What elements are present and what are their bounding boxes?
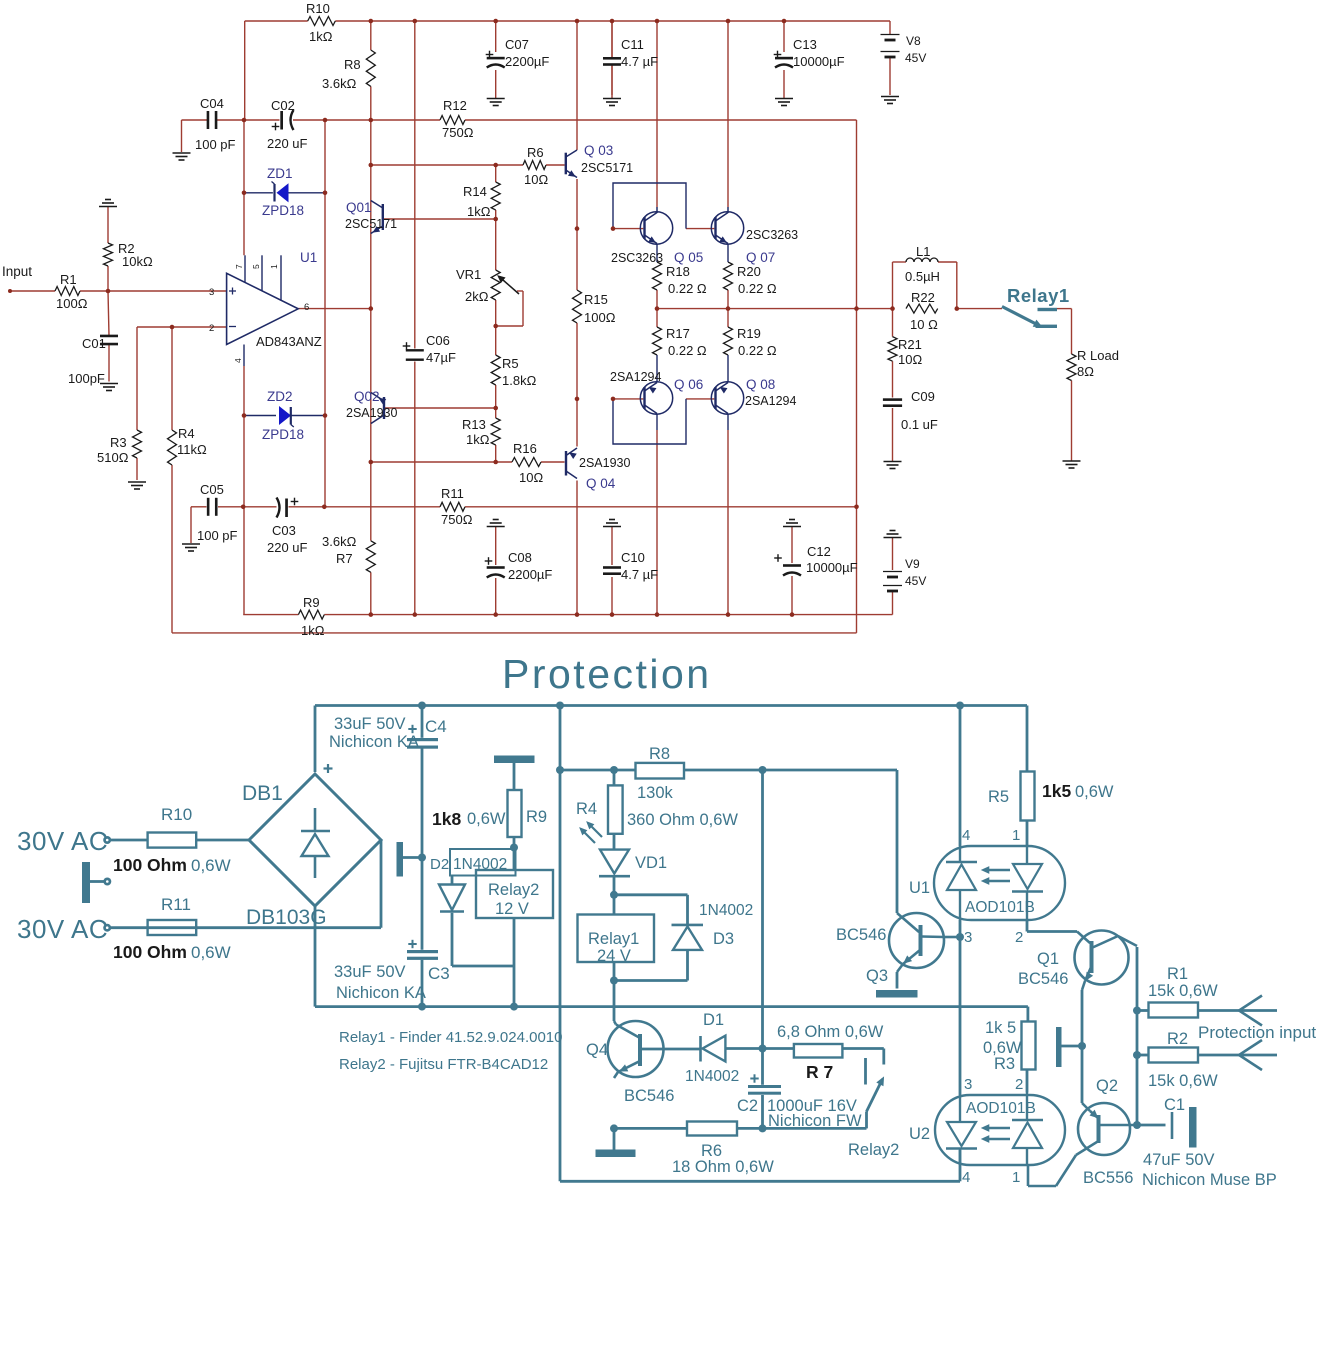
svg-text:10kΩ: 10kΩ xyxy=(122,254,153,269)
svg-text:47uF 50V: 47uF 50V xyxy=(1143,1151,1215,1169)
svg-text:4.7 µF: 4.7 µF xyxy=(621,54,658,69)
svg-text:C11: C11 xyxy=(621,37,644,52)
svg-text:R4: R4 xyxy=(178,426,195,441)
svg-text:2SC5171: 2SC5171 xyxy=(581,161,633,175)
svg-text:0.22 Ω: 0.22 Ω xyxy=(738,343,777,358)
svg-text:3: 3 xyxy=(209,287,214,298)
svg-text:Q 04: Q 04 xyxy=(586,476,616,491)
svg-text:3: 3 xyxy=(964,929,972,946)
svg-text:ZD2: ZD2 xyxy=(267,389,293,404)
svg-text:R15: R15 xyxy=(584,292,608,307)
svg-text:Relay2: Relay2 xyxy=(848,1141,899,1159)
svg-text:C13: C13 xyxy=(793,37,817,52)
svg-text:Q4: Q4 xyxy=(586,1041,608,1059)
svg-text:D3: D3 xyxy=(713,930,734,948)
svg-text:7: 7 xyxy=(234,264,244,269)
svg-text:D1: D1 xyxy=(703,1011,724,1029)
svg-text:Nichicon Muse BP: Nichicon Muse BP xyxy=(1142,1171,1277,1189)
svg-text:R5: R5 xyxy=(988,788,1009,806)
svg-text:ZD1: ZD1 xyxy=(267,166,293,181)
svg-text:0.1 uF: 0.1 uF xyxy=(901,417,938,432)
svg-text:C4: C4 xyxy=(425,717,447,736)
svg-text:0,6W: 0,6W xyxy=(191,856,231,875)
svg-text:R22: R22 xyxy=(911,290,935,305)
svg-text:100 pF: 100 pF xyxy=(195,137,236,152)
svg-text:R17: R17 xyxy=(666,326,690,341)
svg-text:C02: C02 xyxy=(271,98,295,113)
svg-text:Protection: Protection xyxy=(502,651,712,697)
svg-text:C09: C09 xyxy=(911,389,935,404)
svg-text:R3: R3 xyxy=(994,1055,1015,1073)
svg-text:6,8 Ohm 0,6W: 6,8 Ohm 0,6W xyxy=(777,1023,884,1041)
svg-text:R Load: R Load xyxy=(1077,348,1119,363)
svg-text:130k: 130k xyxy=(637,784,674,802)
svg-text:2SC5171: 2SC5171 xyxy=(345,217,397,231)
svg-text:AD843ANZ: AD843ANZ xyxy=(256,334,322,349)
svg-text:750Ω: 750Ω xyxy=(442,125,474,140)
svg-text:1N4002: 1N4002 xyxy=(699,902,753,919)
svg-text:R4: R4 xyxy=(576,800,597,818)
svg-text:1: 1 xyxy=(1012,827,1020,844)
svg-text:R2: R2 xyxy=(1167,1030,1188,1048)
svg-text:Q02: Q02 xyxy=(354,389,380,404)
svg-text:DB1: DB1 xyxy=(242,782,283,805)
svg-text:R19: R19 xyxy=(737,326,761,341)
svg-text:100Ω: 100Ω xyxy=(56,296,88,311)
svg-text:Input: Input xyxy=(2,264,32,279)
svg-text:0.22 Ω: 0.22 Ω xyxy=(738,281,777,296)
svg-text:R1: R1 xyxy=(1167,965,1188,983)
svg-text:18 Ohm 0,6W: 18 Ohm 0,6W xyxy=(672,1158,774,1176)
svg-text:U1: U1 xyxy=(300,250,317,265)
svg-text:1N4002: 1N4002 xyxy=(453,856,507,873)
svg-text:10Ω: 10Ω xyxy=(524,172,548,187)
svg-text:R1: R1 xyxy=(60,272,77,287)
svg-text:15k 0,6W: 15k 0,6W xyxy=(1148,982,1218,1000)
svg-text:Q1: Q1 xyxy=(1037,950,1059,968)
svg-text:Q 03: Q 03 xyxy=(584,143,613,158)
svg-text:R11: R11 xyxy=(441,486,464,501)
svg-text:R10: R10 xyxy=(306,1,330,16)
svg-text:8Ω: 8Ω xyxy=(1077,364,1094,379)
svg-text:C10: C10 xyxy=(621,550,645,565)
svg-text:1kΩ: 1kΩ xyxy=(466,432,490,447)
svg-text:47µF: 47µF xyxy=(426,350,456,365)
svg-text:R14: R14 xyxy=(463,184,487,199)
svg-text:C05: C05 xyxy=(200,482,224,497)
svg-text:1.8kΩ: 1.8kΩ xyxy=(502,373,537,388)
svg-text:220 uF: 220 uF xyxy=(267,136,308,151)
svg-text:Relay1: Relay1 xyxy=(1007,285,1070,306)
svg-text:Relay1 - Finder 41.52.9.024.00: Relay1 - Finder 41.52.9.024.0010 xyxy=(339,1029,562,1046)
svg-text:ZPD18: ZPD18 xyxy=(262,203,304,218)
svg-text:2200µF: 2200µF xyxy=(508,567,552,582)
svg-text:6: 6 xyxy=(304,302,309,313)
svg-text:3: 3 xyxy=(964,1076,972,1093)
svg-text:VD1: VD1 xyxy=(635,854,667,872)
svg-text:DB103G: DB103G xyxy=(246,906,327,929)
svg-text:Nichicon FW: Nichicon FW xyxy=(768,1112,862,1130)
svg-text:15k 0,6W: 15k 0,6W xyxy=(1148,1072,1218,1090)
svg-text:Relay1: Relay1 xyxy=(588,930,639,948)
svg-text:R18: R18 xyxy=(666,264,690,279)
svg-text:Q2: Q2 xyxy=(1096,1077,1118,1095)
svg-text:10Ω: 10Ω xyxy=(519,470,543,485)
svg-text:100 Ohm: 100 Ohm xyxy=(113,855,187,875)
svg-text:R16: R16 xyxy=(513,441,537,456)
svg-text:R20: R20 xyxy=(737,264,761,279)
svg-text:BC546: BC546 xyxy=(836,926,886,944)
svg-text:11kΩ: 11kΩ xyxy=(177,442,207,457)
svg-text:C1: C1 xyxy=(1164,1096,1185,1114)
svg-text:C07: C07 xyxy=(505,37,529,52)
svg-text:0,6W: 0,6W xyxy=(467,810,506,828)
svg-text:BC546: BC546 xyxy=(1018,970,1068,988)
svg-text:Nichicon KA: Nichicon KA xyxy=(336,984,426,1002)
svg-text:360 Ohm 0,6W: 360 Ohm 0,6W xyxy=(627,811,738,829)
svg-text:750Ω: 750Ω xyxy=(441,512,473,527)
svg-text:R7: R7 xyxy=(336,551,353,566)
svg-text:4: 4 xyxy=(962,827,970,844)
svg-text:2kΩ: 2kΩ xyxy=(465,289,489,304)
svg-text:ZPD18: ZPD18 xyxy=(262,427,304,442)
svg-text:Protection input: Protection input xyxy=(1198,1023,1316,1042)
svg-text:220 uF: 220 uF xyxy=(267,540,308,555)
svg-text:C01: C01 xyxy=(82,336,106,351)
svg-text:R6: R6 xyxy=(527,145,544,160)
svg-text:10000µF: 10000µF xyxy=(806,560,858,575)
svg-text:1k8: 1k8 xyxy=(432,809,461,829)
svg-text:R21: R21 xyxy=(898,337,922,352)
svg-text:BC556: BC556 xyxy=(1083,1169,1133,1187)
svg-text:Relay2: Relay2 xyxy=(488,881,539,899)
svg-text:R9: R9 xyxy=(526,808,547,826)
svg-text:0,6W: 0,6W xyxy=(191,943,231,962)
svg-text:Q3: Q3 xyxy=(866,967,888,985)
svg-text:45V: 45V xyxy=(905,574,926,588)
svg-text:1kΩ: 1kΩ xyxy=(309,29,333,44)
svg-text:10000µF: 10000µF xyxy=(793,54,845,69)
svg-text:0.5µH: 0.5µH xyxy=(905,269,940,284)
svg-text:C2: C2 xyxy=(737,1097,758,1115)
svg-text:C03: C03 xyxy=(272,523,296,538)
svg-text:U1: U1 xyxy=(909,879,930,897)
svg-text:2: 2 xyxy=(209,323,214,334)
svg-text:1: 1 xyxy=(1012,1169,1020,1186)
svg-text:R11: R11 xyxy=(161,895,191,914)
svg-text:R8: R8 xyxy=(649,745,670,763)
svg-text:V9: V9 xyxy=(905,557,920,571)
svg-text:R 7: R 7 xyxy=(806,1062,833,1082)
svg-text:100 pF: 100 pF xyxy=(197,528,238,543)
svg-text:2SA1294: 2SA1294 xyxy=(610,370,661,384)
svg-text:1k5: 1k5 xyxy=(1042,781,1071,801)
svg-text:2200µF: 2200µF xyxy=(505,54,549,69)
svg-text:45V: 45V xyxy=(905,51,926,65)
svg-text:R12: R12 xyxy=(443,98,467,113)
svg-text:10 Ω: 10 Ω xyxy=(910,317,938,332)
svg-text:L1: L1 xyxy=(916,244,930,259)
svg-text:C06: C06 xyxy=(426,333,450,348)
svg-text:Q 06: Q 06 xyxy=(674,377,703,392)
svg-text:Q 07: Q 07 xyxy=(746,250,775,265)
svg-text:30V AC: 30V AC xyxy=(17,914,108,944)
svg-text:VR1: VR1 xyxy=(456,267,481,282)
svg-text:100 Ohm: 100 Ohm xyxy=(113,942,187,962)
svg-text:0,6W: 0,6W xyxy=(1075,783,1114,801)
svg-text:4.7 µF: 4.7 µF xyxy=(621,567,658,582)
svg-text:BC546: BC546 xyxy=(624,1087,674,1105)
svg-text:4: 4 xyxy=(233,358,243,363)
svg-text:10Ω: 10Ω xyxy=(898,352,922,367)
svg-text:2SA1930: 2SA1930 xyxy=(346,406,397,420)
svg-text:AOD101B: AOD101B xyxy=(966,1100,1036,1117)
svg-text:33uF 50V: 33uF 50V xyxy=(334,715,406,733)
svg-text:C04: C04 xyxy=(200,96,224,111)
svg-text:2SA1294: 2SA1294 xyxy=(745,394,796,408)
svg-text:2: 2 xyxy=(1015,929,1023,946)
svg-text:2SA1930: 2SA1930 xyxy=(579,456,630,470)
svg-text:V8: V8 xyxy=(906,34,921,48)
svg-text:4: 4 xyxy=(962,1169,970,1186)
svg-text:Q 08: Q 08 xyxy=(746,377,775,392)
svg-text:100Ω: 100Ω xyxy=(584,310,616,325)
svg-text:U2: U2 xyxy=(909,1125,930,1143)
svg-text:R13: R13 xyxy=(462,417,486,432)
svg-text:Q01: Q01 xyxy=(346,200,372,215)
svg-text:2SC3263: 2SC3263 xyxy=(611,251,663,265)
svg-text:R9: R9 xyxy=(303,595,320,610)
svg-text:D2: D2 xyxy=(430,856,449,873)
svg-text:R10: R10 xyxy=(161,805,192,824)
svg-text:R5: R5 xyxy=(502,356,519,371)
svg-text:1kΩ: 1kΩ xyxy=(301,623,325,638)
svg-text:100pF: 100pF xyxy=(68,371,105,386)
svg-text:1kΩ: 1kΩ xyxy=(467,204,491,219)
svg-text:1: 1 xyxy=(269,264,279,269)
svg-text:0.22 Ω: 0.22 Ω xyxy=(668,281,707,296)
svg-text:R3: R3 xyxy=(110,435,127,450)
svg-text:33uF 50V: 33uF 50V xyxy=(334,963,406,981)
svg-text:0.22 Ω: 0.22 Ω xyxy=(668,343,707,358)
svg-text:2: 2 xyxy=(1015,1076,1023,1093)
svg-text:C08: C08 xyxy=(508,550,532,565)
svg-text:Nichicon KA: Nichicon KA xyxy=(329,733,419,751)
svg-text:C3: C3 xyxy=(428,964,450,983)
svg-text:510Ω: 510Ω xyxy=(97,450,129,465)
svg-text:Relay2 - Fujitsu FTR-B4CAD12: Relay2 - Fujitsu FTR-B4CAD12 xyxy=(339,1056,548,1073)
svg-text:AOD101B: AOD101B xyxy=(965,899,1035,916)
svg-text:Q 05: Q 05 xyxy=(674,250,703,265)
svg-text:2SC3263: 2SC3263 xyxy=(746,228,798,242)
svg-text:30V AC: 30V AC xyxy=(17,826,108,856)
svg-text:R8: R8 xyxy=(344,57,361,72)
svg-text:1k 5: 1k 5 xyxy=(985,1019,1016,1037)
svg-text:12 V: 12 V xyxy=(495,900,529,918)
svg-text:3.6kΩ: 3.6kΩ xyxy=(322,76,357,91)
svg-text:3.6kΩ: 3.6kΩ xyxy=(322,534,357,549)
svg-text:C12: C12 xyxy=(807,544,831,559)
svg-text:24 V: 24 V xyxy=(597,947,631,965)
svg-text:5: 5 xyxy=(251,264,261,269)
svg-text:1N4002: 1N4002 xyxy=(685,1068,739,1085)
